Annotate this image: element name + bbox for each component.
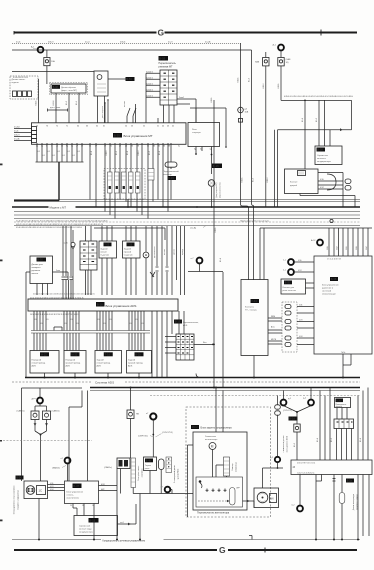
svg-text:54: 54 xyxy=(125,125,127,127)
svg-text:системой: системой xyxy=(322,290,332,293)
svg-text:Система ADS: Система ADS xyxy=(95,381,114,385)
svg-text:введённого воздуха: введённого воздуха xyxy=(357,494,359,510)
svg-text:5мм1: 5мм1 xyxy=(179,97,185,99)
svg-text:педали: педали xyxy=(12,82,20,84)
svg-text:10А: 10А xyxy=(245,111,249,114)
svg-text:0.5: 0.5 xyxy=(58,151,60,153)
svg-text:0.85-Ч: 0.85-Ч xyxy=(138,151,140,156)
svg-text:Блок заднего кондиционера: Блок заднего кондиционера xyxy=(201,427,233,430)
svg-text:заднего: заднего xyxy=(336,406,342,408)
svg-text:Т-1d: Т-1d xyxy=(105,353,111,357)
svg-text:0.5Л: 0.5Л xyxy=(366,246,368,249)
svg-text:0.5-Б: 0.5-Б xyxy=(302,118,304,122)
svg-text:16): 16) xyxy=(286,62,289,64)
svg-text:0.5: 0.5 xyxy=(68,151,70,153)
svg-text:0.85-Л 0.5-Б 0.5-ЧБ 0.5-Б: 0.85-Л 0.5-Б 0.5-ЧБ 0.5-Б 0.85-ЛЧ 0.5-Б … xyxy=(16,224,103,226)
svg-text:0.5: 0.5 xyxy=(130,323,132,325)
svg-text:73: 73 xyxy=(46,125,48,127)
svg-text:выкл. давления (ECS): выкл. давления (ECS) xyxy=(286,435,288,452)
svg-text:Задний: Задний xyxy=(100,248,108,251)
svg-text:В-08: В-08 xyxy=(53,86,59,89)
svg-text:0.85-Ч: 0.85-Ч xyxy=(263,84,265,89)
svg-text:0.5: 0.5 xyxy=(71,319,73,321)
svg-text:Задний: Задний xyxy=(97,359,105,362)
svg-text:0.5: 0.5 xyxy=(48,151,50,153)
svg-text:0.5-БЧ: 0.5-БЧ xyxy=(14,127,20,129)
svg-text:правый: правый xyxy=(124,251,132,254)
svg-text:режимов МТ: режимов МТ xyxy=(159,65,173,68)
svg-text:(САВ15): (САВ15) xyxy=(17,410,25,413)
svg-text:0.5-Б 0.85-Ч 0.5-ЛБ 0.85-Б: 0.5-Б 0.85-Ч 0.5-ЛБ 0.85-Б 0.5-Ч 0.5-Л 0… xyxy=(16,227,83,229)
svg-text:0.85-Б: 0.85-Б xyxy=(211,98,213,103)
svg-text:64: 64 xyxy=(77,125,79,127)
svg-text:1 5 2 +4 10 3 7 23: 1 5 2 +4 10 3 7 23 xyxy=(327,259,341,261)
svg-text:В-2а: В-2а xyxy=(347,480,353,483)
svg-text:MUTE: MUTE xyxy=(271,339,277,341)
svg-text:Блок управления: Блок управления xyxy=(67,491,84,493)
svg-text:0.5-Ч: 0.5-Ч xyxy=(76,101,78,105)
svg-text:0.85-Ч: 0.85-Ч xyxy=(267,178,269,183)
svg-text:(САВ1в): (САВ1в) xyxy=(104,466,112,469)
svg-text:колеса: колеса xyxy=(32,273,39,275)
svg-text:климатизации: климатизации xyxy=(322,294,336,296)
svg-text:0.85-Б: 0.85-Б xyxy=(278,84,280,89)
svg-text:5мм: 5мм xyxy=(56,270,61,272)
svg-text:В-1d: В-1d xyxy=(289,417,295,421)
svg-text:0.5: 0.5 xyxy=(73,155,75,157)
svg-text:1С: 1С xyxy=(39,489,43,493)
svg-text:72: 72 xyxy=(56,125,58,127)
svg-text:резистор: резистор xyxy=(163,174,173,176)
svg-text:G: G xyxy=(158,28,165,38)
svg-text:(СУБО753): (СУБО753) xyxy=(162,432,173,434)
svg-text:0.85-Б: 0.85-Б xyxy=(120,42,126,44)
svg-text:реле антенны: реле антенны xyxy=(283,290,297,292)
svg-text:0.85-Б 0.5-ЛЧ 0.5-Б 0.85-Ч 0.5: 0.85-Б 0.5-ЛЧ 0.5-Б 0.85-Ч 0.5-БЛ 0.5-Ч … xyxy=(284,96,354,98)
svg-text:0.5: 0.5 xyxy=(47,319,49,321)
svg-text:Зажигатель: Зажигатель xyxy=(205,436,216,438)
svg-text:56 54 53 52 51 48 47 46 45 43: 56 54 53 52 51 48 47 46 45 43 38 37 36 3… xyxy=(30,314,79,316)
svg-text:Передний: Передний xyxy=(32,359,42,362)
svg-text:В-37: В-37 xyxy=(73,484,79,488)
svg-text:0.5: 0.5 xyxy=(78,151,80,153)
svg-text:(СУБ171): (СУБ171) xyxy=(283,410,292,412)
svg-text:контакт: контакт xyxy=(164,249,166,255)
svg-text:2-позиционный датчик: 2-позиционный датчик xyxy=(173,465,176,483)
svg-text:Т-04: Т-04 xyxy=(251,299,257,303)
svg-text:4 13 10 9 8 7 6 5 3: 4 13 10 9 8 7 6 5 3 2 1 14 xyxy=(297,462,315,464)
svg-text:0.5-Л: 0.5-Л xyxy=(149,151,151,155)
svg-text:левый привод: левый привод xyxy=(32,362,46,365)
svg-text:НМ2: НМ2 xyxy=(101,489,104,491)
svg-text:Блок управления МТ: Блок управления МТ xyxy=(124,134,153,138)
svg-text:0.5: 0.5 xyxy=(63,155,65,157)
svg-text:Сервисный: Сервисный xyxy=(79,524,91,527)
svg-text:Датчик обратки: Датчик обратки xyxy=(61,87,77,89)
svg-text:Сервисные: Сервисные xyxy=(317,155,329,157)
svg-text:0.5-Б 0.85-Л 0.5-Ч 0.85-БЧ: 0.5-Б 0.85-Л 0.5-Ч 0.85-БЧ 0.5-Л 0.5-Б 0… xyxy=(16,220,107,222)
svg-text:В-38: В-38 xyxy=(331,277,337,281)
svg-text:правый привод: правый привод xyxy=(128,362,143,365)
svg-text:0.5-Ч: 0.5-Ч xyxy=(331,438,333,442)
svg-text:0.5-Б: 0.5-Б xyxy=(360,438,362,442)
svg-text:(выключатель СС): (выключатель СС) xyxy=(220,182,222,198)
svg-text:0.5-Б 0.85-Л 0.5-Ч: 0.5-Б 0.85-Л 0.5-Ч xyxy=(13,77,29,79)
svg-text:0.3Ч: 0.3Ч xyxy=(299,336,302,338)
svg-text:0.5: 0.5 xyxy=(110,319,112,321)
svg-text:В-39: В-39 xyxy=(114,134,120,138)
svg-text:Переключатель,: Переключатель, xyxy=(183,322,199,324)
svg-text:В-05: В-05 xyxy=(285,282,291,285)
svg-text:контакт: контакт xyxy=(124,101,126,107)
svg-text:0.5Б: 0.5Б xyxy=(356,246,358,249)
svg-text:правый привод: правый привод xyxy=(66,362,81,365)
svg-text:2-к: 2-к xyxy=(283,270,286,272)
svg-text:реле: реле xyxy=(145,468,150,470)
svg-text:Задний: Задний xyxy=(128,359,136,362)
svg-text:поворота: поворота xyxy=(32,267,42,269)
svg-text:В-06: В-06 xyxy=(16,476,22,480)
svg-text:51: 51 xyxy=(157,125,159,127)
svg-text:0.5: 0.5 xyxy=(104,323,106,325)
svg-text:0.5: 0.5 xyxy=(98,319,100,321)
svg-text:левый привод: левый привод xyxy=(97,362,111,365)
svg-text:М-32: М-32 xyxy=(71,353,77,357)
svg-text:Т-06: Т-06 xyxy=(127,244,133,247)
svg-text:TV - тюнера: TV - тюнера xyxy=(245,310,257,312)
svg-text:рулевого: рулевого xyxy=(32,270,41,272)
svg-text:Термо: Термо xyxy=(145,465,152,467)
svg-text:44: 44 xyxy=(162,125,164,127)
svg-text:Передний: Передний xyxy=(66,359,76,362)
svg-text:Датчик полож.: Датчик полож. xyxy=(12,79,26,81)
svg-text:В-59: В-59 xyxy=(159,57,165,61)
svg-text:давление и: давление и xyxy=(322,288,334,290)
svg-text:7b 1b: 7b 1b xyxy=(341,352,345,354)
svg-text:0.5: 0.5 xyxy=(53,155,55,157)
svg-text:В-18: В-18 xyxy=(97,303,103,307)
svg-text:(SAB: (SAB xyxy=(286,58,291,61)
svg-text:0.5-Л: 0.5-Л xyxy=(253,178,255,182)
svg-text:контакты: контакты xyxy=(317,158,326,160)
svg-text:0.5 0.5 0.5 0.85 0.5 0.5: 0.5 0.5 0.5 0.85 0.5 0.5 0.5 0.5 0.85 0.… xyxy=(33,294,95,296)
svg-text:Реле щёток стекло-: Реле щёток стекло- xyxy=(138,465,140,481)
svg-text:Резистор: Резистор xyxy=(232,463,234,470)
svg-text:с включением датчика: с включением датчика xyxy=(283,436,285,453)
svg-text:0.5-Б: 0.5-Б xyxy=(91,151,93,155)
svg-text:ADS: ADS xyxy=(97,365,102,368)
svg-text:контакт воды: контакт воды xyxy=(79,528,92,530)
svg-text:В-46: В-46 xyxy=(336,400,341,402)
svg-text:0.85-Б: 0.85-Б xyxy=(215,228,217,233)
svg-text:Лампы фонарей стоп-сигнала: Лампы фонарей стоп-сигнала xyxy=(240,219,270,222)
svg-text:1а 4а 7а 2а 5а 8а 3а 6: 1а 4а 7а 2а 5а 8а 3а 6а xyxy=(297,473,314,475)
svg-text:0.5Л: 0.5Л xyxy=(50,486,53,488)
svg-text:0.85-Б: 0.85-Б xyxy=(242,178,244,183)
svg-text:(форс., авто МТ): (форс., авто МТ) xyxy=(61,89,77,92)
svg-text:привод: привод xyxy=(182,248,184,255)
svg-text:(под кожухом МТ): (под кожухом МТ) xyxy=(216,182,218,197)
svg-text:61: 61 xyxy=(103,125,105,127)
svg-text:кондиционера: кондиционера xyxy=(79,531,94,533)
svg-text:Переключатель вентилятора: Переключатель вентилятора xyxy=(197,511,230,514)
svg-text:В-4а: В-4а xyxy=(146,460,152,463)
svg-text:0.5-ЧБ: 0.5-ЧБ xyxy=(14,139,20,141)
svg-text:В-28: В-28 xyxy=(317,148,323,152)
svg-text:М3-2: М3-2 xyxy=(192,425,198,429)
svg-text:O-датчик: O-датчик xyxy=(124,254,133,256)
svg-text:левый: левый xyxy=(100,251,107,254)
svg-text:Т-05: Т-05 xyxy=(104,244,110,247)
svg-text:В-15: В-15 xyxy=(89,519,95,523)
svg-text:Контакт для: Контакт для xyxy=(283,287,295,289)
svg-text:Датчик угла: Датчик угла xyxy=(32,264,44,266)
svg-text:очистителем: очистителем xyxy=(67,497,80,499)
svg-text:уровня (NEX): уровня (NEX) xyxy=(178,468,180,479)
svg-text:ADS: ADS xyxy=(32,365,37,368)
svg-text:0.5Л: 0.5Л xyxy=(298,270,301,272)
svg-text:0.85-Л: 0.85-Л xyxy=(106,151,108,156)
svg-text:0.5: 0.5 xyxy=(65,323,67,325)
svg-text:10А: 10А xyxy=(51,60,55,63)
svg-text:71: 71 xyxy=(66,125,68,127)
svg-text:0.3Б: 0.3Б xyxy=(299,305,302,307)
svg-text:Контакт: Контакт xyxy=(290,182,298,184)
svg-text:3а: 3а xyxy=(178,146,180,148)
svg-text:0.5Б: 0.5Б xyxy=(327,246,329,249)
svg-text:Кондиционер с речевым управлен: Кондиционер с речевым управлением xyxy=(103,539,146,542)
svg-text:(СМРО31): (СМРО31) xyxy=(138,435,148,437)
svg-text:0.3Л: 0.3Л xyxy=(299,320,302,322)
svg-text:25: 25 xyxy=(70,505,72,507)
svg-text:переднего кондиционера: переднего кондиционера xyxy=(18,490,20,510)
svg-text:ADS: ADS xyxy=(128,365,133,368)
svg-text:В-19: В-19 xyxy=(175,320,181,324)
svg-text:62: 62 xyxy=(96,125,98,127)
svg-text:42: 42 xyxy=(172,125,174,127)
svg-text:0.5: 0.5 xyxy=(77,323,79,325)
svg-text:63: 63 xyxy=(86,125,88,127)
svg-text:SAB: SAB xyxy=(255,61,260,64)
svg-text:0.5-Ч: 0.5-Ч xyxy=(116,151,118,155)
svg-text:11: 11 xyxy=(82,505,84,507)
svg-text:датчик: датчик xyxy=(174,249,176,255)
svg-text:M: M xyxy=(211,445,214,449)
svg-text:43: 43 xyxy=(167,125,169,127)
svg-text:ADS: ADS xyxy=(183,324,188,327)
svg-text:0.5-Л: 0.5-Л xyxy=(316,118,318,122)
svg-text:вентилятора: вентилятора xyxy=(205,439,218,441)
svg-text:0.5: 0.5 xyxy=(35,319,37,321)
svg-text:0.5Б: 0.5Б xyxy=(50,483,53,485)
svg-text:вентилятора: вентилятора xyxy=(236,462,238,472)
svg-text:датчик полож.: датчик полож. xyxy=(154,246,156,258)
svg-text:Блок управления: Блок управления xyxy=(322,285,339,287)
svg-text:REM: REM xyxy=(271,316,275,318)
svg-text:Блок управления ADS: Блок управления ADS xyxy=(106,304,137,308)
svg-text:0.5-Б: 0.5-Б xyxy=(220,258,222,262)
svg-text:датч. скорости: датч. скорости xyxy=(102,106,104,118)
svg-text:0.5-БЧ: 0.5-БЧ xyxy=(53,101,55,106)
svg-text:Датчик температуры: Датчик температуры xyxy=(353,493,355,510)
svg-text:0.5: 0.5 xyxy=(142,323,144,325)
svg-text:53: 53 xyxy=(131,125,133,127)
svg-text:0.5-Л: 0.5-Л xyxy=(294,443,296,447)
svg-text:датч. темп.: датч. темп. xyxy=(50,107,61,109)
svg-text:74: 74 xyxy=(36,125,38,127)
svg-text:0.85-Л: 0.85-Л xyxy=(48,42,54,44)
svg-text:(1к+А): (1к+А) xyxy=(190,227,196,230)
svg-text:0.5Л: 0.5Л xyxy=(337,246,339,249)
svg-text:0.85-Б: 0.85-Б xyxy=(36,101,38,106)
svg-text:стартера: стартера xyxy=(192,132,201,134)
svg-text:0.5-ЧБ: 0.5-ЧБ xyxy=(205,42,211,44)
svg-text:Модели с МТ: Модели с МТ xyxy=(50,205,67,209)
svg-text:0.5-Б: 0.5-Б xyxy=(127,151,129,155)
svg-text:В-33: В-33 xyxy=(168,176,174,180)
svg-text:дверей: дверей xyxy=(290,184,298,187)
svg-text:В-1b: В-1b xyxy=(135,353,141,357)
svg-text:Электродвигатель стеклоочистит: Электродвигатель стеклоочистителя xyxy=(14,486,16,515)
svg-text:Подогреваемый: Подогреваемый xyxy=(163,170,179,173)
svg-text:стекло-: стекло- xyxy=(67,494,74,496)
svg-text:ADS: ADS xyxy=(66,365,71,368)
svg-text:0.5-Л: 0.5-Л xyxy=(66,101,68,105)
svg-text:В-30: В-30 xyxy=(37,258,43,262)
svg-text:0.5-Б: 0.5-Б xyxy=(317,438,319,442)
svg-text:кондиционера: кондиционера xyxy=(317,161,332,163)
svg-text:0.5: 0.5 xyxy=(43,155,45,157)
svg-text:Задний: Задний xyxy=(124,248,132,251)
svg-text:0.5: 0.5 xyxy=(136,319,138,321)
svg-text:1-к: 1-к xyxy=(283,260,286,262)
svg-text:0.5Ч: 0.5Ч xyxy=(346,246,348,249)
svg-text:52: 52 xyxy=(143,125,145,127)
svg-text:0.5: 0.5 xyxy=(38,151,40,153)
svg-text:0.85-Б: 0.85-Б xyxy=(238,78,240,83)
svg-text:0.85-Л: 0.85-Л xyxy=(14,135,20,137)
svg-text:G: G xyxy=(219,545,226,555)
svg-text:0.5: 0.5 xyxy=(41,323,43,325)
svg-text:Контакты: Контакты xyxy=(245,307,254,309)
svg-text:0.5-Б: 0.5-Б xyxy=(159,151,161,155)
svg-text:O-датчик: O-датчик xyxy=(100,254,109,256)
svg-text:(САВ16): (САВ16) xyxy=(52,410,60,413)
svg-text:0.5-Л: 0.5-Л xyxy=(249,78,251,82)
svg-text:0.5Ч: 0.5Ч xyxy=(50,489,53,491)
svg-text:М-22: М-22 xyxy=(41,353,47,357)
svg-text:В-50: В-50 xyxy=(126,77,132,81)
svg-text:(SAB15): (SAB15) xyxy=(52,467,60,470)
